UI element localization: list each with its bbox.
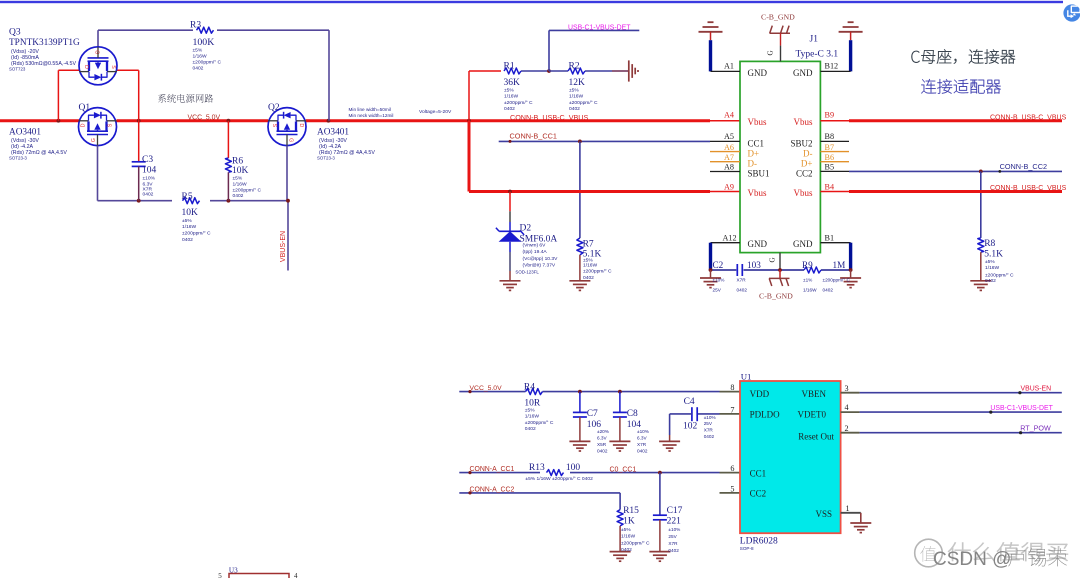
- svg-text:4: 4: [845, 403, 849, 412]
- pin stub B8: [820, 140, 849, 142]
- svg-text:6.3V: 6.3V: [637, 435, 648, 440]
- svg-text:25V: 25V: [704, 421, 713, 426]
- svg-text:A5: A5: [724, 132, 734, 141]
- wire B12 to ground (navy): [820, 40, 850, 71]
- svg-text:AO3401: AO3401: [9, 128, 41, 138]
- svg-text:5.1K: 5.1K: [984, 249, 1003, 259]
- svg-text:0402: 0402: [823, 288, 834, 293]
- svg-text:CONN-B_USB-C_VBUS: CONN-B_USB-C_VBUS: [990, 185, 1067, 192]
- svg-text:CONN-B_USB-C_VBUS: CONN-B_USB-C_VBUS: [990, 115, 1067, 122]
- resistor R15: [610, 510, 631, 562]
- label anchor dot CC1: [509, 140, 512, 143]
- svg-text:VCC_5.0V: VCC_5.0V: [470, 385, 503, 392]
- wire VBUS-EN out (slate): [860, 392, 1062, 394]
- svg-text:25V: 25V: [713, 288, 722, 293]
- svg-text:D2: D2: [520, 224, 532, 234]
- svg-text:R7: R7: [583, 240, 594, 250]
- svg-text:X7R: X7R: [668, 541, 678, 546]
- svg-text:S: S: [110, 65, 116, 69]
- wire bottom gnd run (navy): [711, 269, 851, 271]
- wire VBUS to R1 (red): [469, 71, 501, 121]
- label D2 specs: [515, 242, 558, 274]
- label anchor dot CONN-B_CC2: [998, 170, 1001, 173]
- wire R2 to ground: [612, 70, 629, 72]
- svg-text:SOT23-3: SOT23-3: [317, 156, 335, 161]
- svg-text:36K: 36K: [504, 78, 521, 88]
- svg-text:C17: C17: [667, 506, 683, 516]
- svg-text:A7: A7: [724, 153, 734, 162]
- svg-text:TPNTK3139PT1G: TPNTK3139PT1G: [9, 38, 80, 48]
- wire USB-C1-VBUS-DET sense (slate): [549, 30, 639, 71]
- diode D2 zener SMF6.0A: [496, 192, 524, 281]
- wire CONN-B_CC2 (slate): [849, 170, 1062, 172]
- svg-text:0402: 0402: [504, 106, 515, 112]
- svg-text:VBUS-EN: VBUS-EN: [1021, 386, 1052, 393]
- label R9 specs: [803, 278, 850, 293]
- pin stub 8 VDD: [720, 391, 741, 393]
- svg-text:1M: 1M: [833, 260, 846, 270]
- svg-text:SOP-8: SOP-8: [740, 546, 754, 551]
- label anchor dot CONN-A_CC1: [468, 471, 471, 474]
- svg-text:X7R: X7R: [637, 442, 647, 447]
- power symbol C-B_GND top: [770, 26, 791, 62]
- wire Q2 gate drop (purple): [286, 146, 288, 201]
- svg-text:Q1: Q1: [79, 103, 91, 113]
- label anchor dot CONN-A_CC2: [468, 491, 471, 494]
- note min line width: [349, 107, 394, 118]
- wire crossing patch red over R7 drop: [576, 190, 584, 193]
- svg-text:±10%: ±10%: [704, 415, 716, 420]
- svg-text:VSS: VSS: [815, 509, 832, 519]
- label Q3 specs: [9, 49, 76, 72]
- svg-text:±200ppm/° C: ±200ppm/° C: [233, 188, 262, 194]
- junction dot R7 tap: [578, 140, 582, 144]
- svg-text:±200ppm/° C: ±200ppm/° C: [525, 420, 554, 426]
- svg-text:±5%: ±5%: [504, 88, 514, 94]
- ground (sideways) at R2: [629, 60, 638, 81]
- svg-text:SOT23-3: SOT23-3: [9, 156, 27, 161]
- ground at VSS: [850, 523, 871, 533]
- junction dots C7 C8 taps: [578, 390, 622, 394]
- svg-text:A8: A8: [724, 163, 734, 172]
- svg-text:Min line width=50mil: Min line width=50mil: [349, 107, 391, 112]
- label C8 specs: [637, 429, 649, 454]
- svg-text:±5%: ±5%: [569, 88, 579, 94]
- svg-text:D-: D-: [803, 149, 813, 159]
- svg-text:VBEN: VBEN: [802, 389, 827, 399]
- label C3 specs: [143, 176, 156, 198]
- svg-text:0402: 0402: [597, 448, 608, 453]
- junction dot C17 tap: [658, 471, 662, 475]
- capacitor C17: [649, 473, 670, 562]
- svg-text:±5%: ±5%: [182, 218, 192, 224]
- floating blue share button top-right: [1063, 4, 1080, 21]
- svg-text:5: 5: [730, 484, 734, 493]
- svg-text:±5% 1/16W ±200ppm/° C 0402: ±5% 1/16W ±200ppm/° C 0402: [525, 476, 593, 482]
- power symbol C-B_GND bottom: [769, 270, 790, 286]
- svg-text:10K: 10K: [182, 208, 199, 218]
- capacitor C4 (pin 7 PDLDO): [659, 407, 719, 451]
- svg-text:0402: 0402: [737, 288, 748, 293]
- svg-text:GND: GND: [748, 68, 768, 78]
- svg-text:X7R: X7R: [737, 278, 747, 283]
- svg-text:0402: 0402: [182, 237, 193, 243]
- svg-text:USB-C1-VBUS-DET: USB-C1-VBUS-DET: [990, 405, 1053, 412]
- watermark zhi circle logo: [915, 539, 943, 567]
- svg-text:D+: D+: [748, 149, 760, 159]
- svg-text:S: S: [107, 123, 113, 127]
- pin stub 7 PDLDO: [720, 413, 741, 415]
- svg-text:(Vbr@It) 7.37V: (Vbr@It) 7.37V: [523, 263, 556, 269]
- svg-text:0402: 0402: [193, 66, 204, 72]
- svg-text:U1: U1: [741, 372, 752, 382]
- svg-text:D: D: [298, 124, 304, 128]
- svg-text:D: D: [80, 123, 86, 127]
- svg-text:G: G: [91, 138, 97, 142]
- svg-text:R2: R2: [569, 62, 580, 72]
- label C2 specs: [713, 278, 748, 293]
- transistor Q3 (TPNTK3139PT1G): [79, 47, 117, 85]
- svg-text:1/16W: 1/16W: [569, 94, 584, 100]
- pin stub A5: [710, 140, 740, 142]
- svg-text:±10%: ±10%: [637, 429, 649, 434]
- svg-text:R9: R9: [802, 260, 813, 270]
- svg-text:103: 103: [747, 260, 761, 270]
- watermark CSDN @卢锡荣: [933, 548, 1067, 570]
- svg-text:B4: B4: [825, 182, 835, 191]
- svg-text:X5R: X5R: [597, 442, 607, 447]
- svg-text:±200ppm/° C: ±200ppm/° C: [823, 278, 851, 283]
- svg-text:R1: R1: [504, 62, 515, 72]
- wire VCC_5.0V to VDD (slate): [459, 391, 719, 393]
- wire CONN-B_USB-C_VBUS right bottom (thick red): [849, 190, 1062, 193]
- pin stub A4: [710, 120, 740, 122]
- wire Q3 source to rail (red): [116, 70, 138, 120]
- svg-text:CONN-A_CC2: CONN-A_CC2: [470, 486, 515, 493]
- svg-text:0402: 0402: [233, 193, 244, 199]
- svg-text:±10%: ±10%: [668, 527, 680, 532]
- ground below C2: [700, 270, 721, 288]
- svg-text:SOD-123FL: SOD-123FL: [515, 269, 539, 274]
- svg-text:1/16W: 1/16W: [583, 263, 598, 269]
- wire VCC_5.0V main rail (thick red): [0, 119, 710, 122]
- op-amp U1 LDR6028 body: [740, 381, 841, 533]
- wire CONN-B_USB-C_VBUS right top (thick red): [849, 119, 1062, 122]
- svg-text:2: 2: [845, 424, 849, 433]
- earth ground right of J1: [839, 22, 863, 40]
- svg-text:C4: C4: [684, 397, 695, 407]
- ground at R8: [970, 281, 991, 291]
- svg-text:B7: B7: [825, 143, 835, 152]
- transistor Q2 (AO3401): [268, 108, 306, 146]
- svg-text:G: G: [93, 50, 99, 54]
- svg-text:D: D: [83, 65, 89, 69]
- wire USB-C1-VBUS-DET out (slate): [860, 411, 1062, 413]
- svg-text:A6: A6: [724, 143, 734, 152]
- svg-text:±5%: ±5%: [233, 176, 243, 182]
- svg-text:B9: B9: [825, 111, 835, 120]
- svg-text:CONN-A_CC1: CONN-A_CC1: [470, 466, 515, 473]
- svg-text:VDD: VDD: [750, 389, 770, 399]
- pin stub A9: [710, 191, 740, 193]
- svg-text:PDLDO: PDLDO: [750, 409, 781, 419]
- svg-text:221: 221: [667, 517, 682, 527]
- svg-text:±5%: ±5%: [621, 527, 631, 533]
- svg-text:C7: C7: [587, 409, 598, 419]
- svg-text:6: 6: [730, 464, 734, 473]
- svg-text:1: 1: [846, 504, 850, 513]
- resistor R5: [183, 198, 200, 204]
- svg-text:J1: J1: [810, 35, 819, 45]
- svg-text:±200ppm/° C: ±200ppm/° C: [569, 100, 598, 106]
- resistor R2: [549, 70, 568, 72]
- svg-text:0402: 0402: [569, 106, 580, 112]
- wire R5 to R6/Q2 gate (purple): [210, 200, 288, 202]
- svg-text:A1: A1: [724, 61, 734, 70]
- ground at R7: [569, 281, 590, 291]
- pin stub 4 VDET0: [841, 411, 860, 413]
- capacitor C3: [132, 121, 146, 201]
- pin stub A12 + navy drop: [711, 243, 741, 270]
- svg-text:0402: 0402: [985, 278, 996, 284]
- svg-text:S: S: [271, 124, 277, 128]
- ground below B1: [840, 270, 861, 288]
- svg-text:±5%: ±5%: [525, 407, 535, 413]
- svg-text:Q2: Q2: [268, 103, 280, 113]
- svg-text:(Ipp) 19.4A: (Ipp) 19.4A: [523, 249, 548, 255]
- svg-text:C2: C2: [713, 260, 724, 270]
- svg-text:1/16W: 1/16W: [803, 288, 817, 293]
- svg-text:AO3401: AO3401: [317, 128, 349, 138]
- svg-text:100K: 100K: [193, 37, 215, 48]
- svg-text:G: G: [767, 50, 775, 55]
- label R8 specs: [985, 259, 1014, 284]
- svg-text:0402: 0402: [704, 434, 715, 439]
- wire RT_POW out (slate): [860, 432, 1062, 434]
- wire A1 to ground (navy): [711, 40, 741, 71]
- junction dots bottom run: [709, 268, 853, 272]
- svg-text:Voltage=5-20V: Voltage=5-20V: [419, 109, 452, 115]
- transistor Q1 (AO3401): [79, 108, 117, 146]
- svg-text:±200ppm/° C: ±200ppm/° C: [985, 272, 1014, 278]
- svg-text:5: 5: [218, 572, 222, 578]
- watermark faint 什么值得买: [948, 542, 1068, 561]
- svg-text:1/16W: 1/16W: [525, 413, 540, 419]
- junction dot R1-R2: [547, 69, 551, 73]
- pin stub B1 + navy drop: [820, 243, 850, 270]
- note C母座，连接器: [911, 49, 1015, 63]
- component U3 fragment at bottom: [218, 566, 298, 578]
- wire CONN-B VBUS branch (thick red L): [469, 121, 710, 192]
- svg-text:Q3: Q3: [9, 28, 21, 38]
- svg-text:Vbus: Vbus: [793, 188, 812, 198]
- svg-text:1/16W: 1/16W: [504, 94, 519, 100]
- svg-text:C8: C8: [627, 409, 638, 419]
- svg-text:1/16W: 1/16W: [182, 224, 197, 230]
- svg-text:Vbus: Vbus: [793, 117, 812, 127]
- svg-text:±5%: ±5%: [985, 259, 995, 265]
- svg-text:R5: R5: [182, 192, 193, 202]
- svg-text:10R: 10R: [524, 399, 541, 409]
- svg-text:±5%: ±5%: [193, 48, 203, 54]
- svg-text:±200ppm/° C: ±200ppm/° C: [621, 541, 650, 547]
- note 系统电源网路: [158, 94, 213, 103]
- svg-text:6.3V: 6.3V: [597, 435, 608, 440]
- svg-text:GND: GND: [793, 239, 813, 249]
- svg-text:0402: 0402: [525, 426, 536, 432]
- svg-text:0402: 0402: [668, 548, 679, 553]
- svg-text:CONN-B_USB-C_VBUS: CONN-B_USB-C_VBUS: [510, 113, 588, 122]
- pin stub B5: [820, 170, 849, 172]
- svg-text:SBU2: SBU2: [790, 139, 812, 149]
- pin stub 2 Reset Out: [841, 432, 860, 434]
- svg-text:VBUS-EN: VBUS-EN: [280, 231, 287, 262]
- wire CONN-A_CC1 (slate): [459, 472, 719, 474]
- svg-text:1/16W: 1/16W: [233, 182, 248, 188]
- ground at D2: [500, 281, 521, 291]
- label C7 specs: [597, 429, 609, 454]
- svg-text:VDET0: VDET0: [798, 409, 827, 419]
- label R4 specs: [525, 407, 554, 432]
- svg-text:12K: 12K: [569, 78, 586, 88]
- svg-text:104: 104: [142, 166, 157, 176]
- svg-text:CONN-B_CC2: CONN-B_CC2: [1000, 162, 1047, 171]
- svg-text:CC2: CC2: [796, 168, 813, 178]
- svg-text:B12: B12: [825, 61, 839, 70]
- pin stub B6: [820, 161, 849, 163]
- note 连接适配器: [921, 79, 1001, 94]
- svg-text:Min neck width=12mil: Min neck width=12mil: [349, 113, 394, 118]
- capacitor C8: [609, 392, 630, 451]
- svg-text:0402: 0402: [621, 547, 632, 553]
- capacitor C7: [569, 392, 590, 451]
- label Q2 specs: [317, 138, 375, 161]
- svg-text:USB-C1-VBUS-DET: USB-C1-VBUS-DET: [568, 24, 631, 31]
- svg-text:Type-C 3.1: Type-C 3.1: [796, 50, 839, 60]
- svg-text:(Vrwm) 6V: (Vrwm) 6V: [523, 242, 547, 248]
- svg-text:A12: A12: [723, 233, 737, 242]
- resistor R7: [577, 141, 583, 280]
- svg-text:CONN-B_CC1: CONN-B_CC1: [510, 132, 557, 141]
- pin stub A7: [710, 161, 740, 163]
- svg-text:R3: R3: [190, 21, 201, 31]
- wire crossing patch red over R8 drop: [977, 190, 985, 193]
- wire Q1 gate to R5 (purple): [98, 146, 173, 201]
- svg-text:R6: R6: [232, 157, 243, 167]
- pin stub 3 VBEN: [841, 392, 860, 394]
- label R5 specs: [182, 218, 211, 243]
- resistor R1: [521, 70, 549, 72]
- resistor R9 body: [804, 267, 821, 273]
- pin stub B9: [820, 120, 849, 122]
- svg-text:±5%: ±5%: [583, 257, 593, 263]
- svg-text:D-: D-: [748, 158, 758, 168]
- resistor R3: [197, 27, 214, 33]
- label C17 specs: [668, 527, 680, 553]
- svg-text:GND: GND: [748, 239, 768, 249]
- junction dots gate bus: [137, 199, 290, 203]
- svg-text:R8: R8: [984, 239, 995, 249]
- svg-text:CC1: CC1: [748, 139, 765, 149]
- svg-text:G: G: [288, 138, 294, 142]
- schematic frame top border: [0, 1, 1063, 3]
- label R6 specs: [233, 176, 262, 200]
- svg-text:CC2: CC2: [750, 489, 767, 499]
- pin stub B7: [820, 151, 849, 153]
- svg-text:±20%: ±20%: [597, 429, 609, 434]
- svg-text:B6: B6: [825, 153, 835, 162]
- label anchor dot VCC lower: [468, 390, 471, 393]
- svg-text:X7R: X7R: [704, 428, 714, 433]
- svg-text:7: 7: [730, 405, 734, 414]
- svg-text:3: 3: [845, 384, 849, 393]
- svg-text:G: G: [769, 257, 777, 262]
- svg-text:B5: B5: [825, 163, 835, 172]
- label anchor dot USB-C1-VBUS-DET: [989, 411, 992, 414]
- pin stub 5 CC2: [720, 492, 741, 494]
- capacitor C2 plates: [737, 264, 742, 276]
- svg-text:102: 102: [683, 422, 698, 432]
- svg-text:1/16W: 1/16W: [193, 54, 208, 60]
- svg-text:Vbus: Vbus: [748, 188, 767, 198]
- pin stub 1 VSS: [841, 513, 861, 523]
- svg-text:±10%: ±10%: [713, 278, 725, 283]
- svg-text:8: 8: [730, 383, 734, 392]
- svg-text:Vbus: Vbus: [748, 117, 767, 127]
- resistor R4: [526, 389, 543, 395]
- svg-text:VCC_5.0V: VCC_5.0V: [188, 114, 221, 121]
- svg-text:B1: B1: [825, 233, 835, 242]
- label R3 specs: [193, 48, 222, 72]
- label C4 specs: [704, 415, 716, 439]
- wire R3 gate loop (purple): [98, 30, 329, 121]
- label anchor dot VBUS-EN: [1018, 391, 1021, 394]
- connector J1 Type-C 3.1 body: [740, 61, 820, 252]
- label R15 specs: [621, 527, 650, 553]
- svg-text:SBU1: SBU1: [748, 168, 770, 178]
- svg-text:C3: C3: [142, 155, 153, 165]
- earth ground left of J1: [699, 22, 723, 40]
- svg-text:C-B_GND: C-B_GND: [761, 12, 795, 21]
- svg-text:R15: R15: [623, 506, 639, 516]
- wire CONN-B_CC1 (slate): [499, 140, 710, 142]
- wire VBUS-EN drop (purple): [287, 201, 289, 271]
- svg-text:SOT723: SOT723: [9, 67, 26, 72]
- pin stub 6 CC1: [720, 472, 741, 474]
- svg-text:10K: 10K: [232, 166, 249, 176]
- resistor R13: [547, 470, 564, 476]
- svg-text:1K: 1K: [623, 517, 635, 527]
- label R2 specs: [569, 88, 598, 113]
- wire Q3 drain to rail (red): [58, 70, 79, 120]
- label R7 specs: [583, 257, 612, 281]
- resistor R6: [225, 121, 231, 201]
- svg-text:CSDN @: CSDN @: [933, 549, 1011, 570]
- junction dot R8 tap: [979, 170, 983, 174]
- svg-text:0402: 0402: [583, 275, 594, 281]
- svg-text:A4: A4: [724, 111, 734, 120]
- svg-text:±200ppm/° C: ±200ppm/° C: [182, 231, 211, 237]
- svg-text:4: 4: [294, 572, 298, 578]
- junction dots on VCC rail: [57, 119, 471, 123]
- pin stub B4: [820, 191, 849, 193]
- svg-text:B8: B8: [825, 132, 835, 141]
- svg-text:RT_POW: RT_POW: [1020, 424, 1051, 433]
- svg-text:R4: R4: [524, 382, 535, 392]
- label anchor dot RT_POW: [1019, 431, 1022, 434]
- svg-text:D+: D+: [801, 158, 813, 168]
- svg-text:1/16W: 1/16W: [985, 265, 1000, 271]
